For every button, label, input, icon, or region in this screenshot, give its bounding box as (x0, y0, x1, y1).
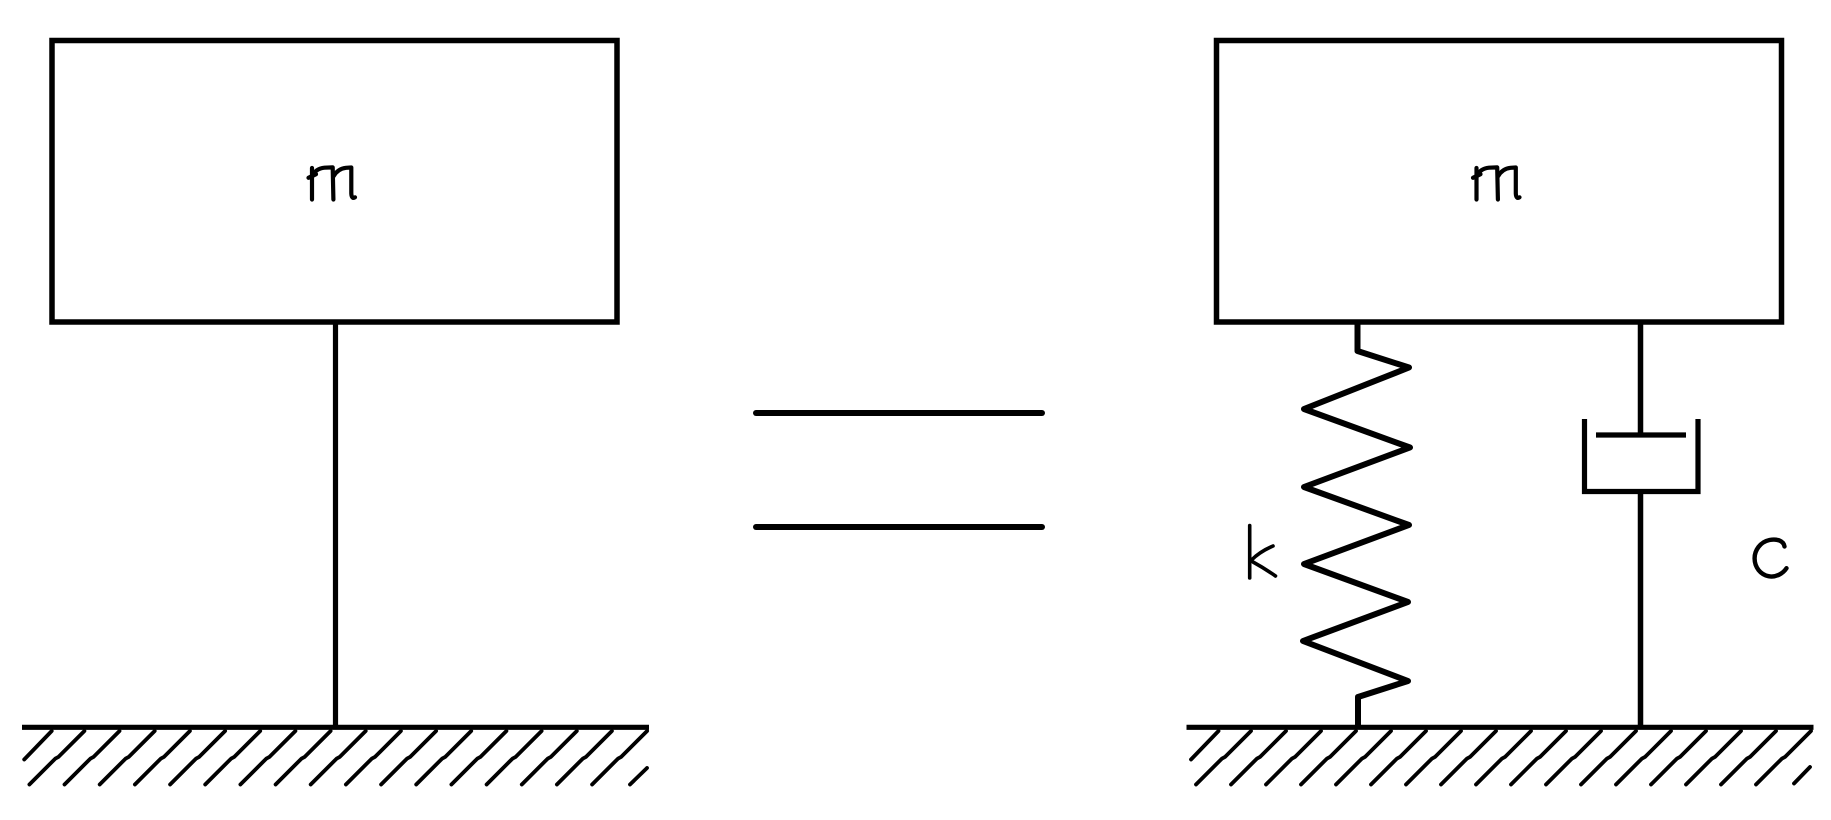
damper c : piston plate (1596, 432, 1686, 437)
support rod (left) (333, 322, 338, 727)
equals sign (756, 413, 1042, 527)
damper c : cylinder cup (1585, 419, 1699, 492)
label k (1250, 526, 1276, 579)
ground line (right) (1187, 725, 1814, 730)
label c (1755, 540, 1787, 577)
damper c : upper rod (1638, 322, 1644, 434)
label m (left mass) (309, 167, 356, 199)
mass block m (left) (52, 41, 617, 323)
ground hatching (left) (24, 731, 647, 785)
ground line (left) (22, 725, 649, 730)
spring k (1303, 322, 1410, 727)
ground hatching (right) (1191, 731, 1811, 785)
mass block m (right) (1217, 41, 1782, 323)
damper c : lower rod (1638, 492, 1644, 728)
label m (right mass) (1473, 167, 1520, 199)
